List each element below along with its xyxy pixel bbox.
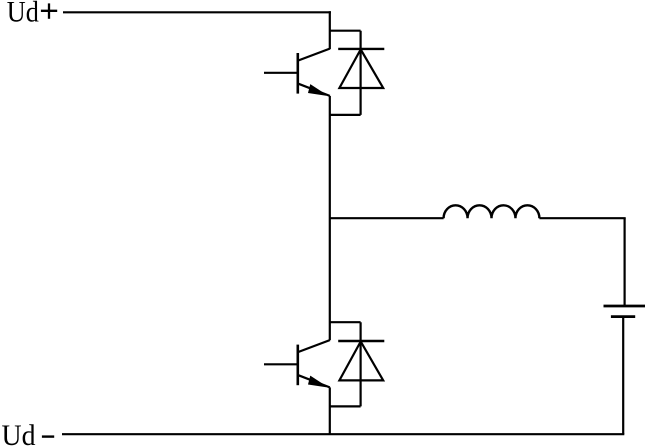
wire top rail from Ud+ to Q1 collector <box>63 11 331 13</box>
wire main vertical middle (Q1 emitter to Q2 collector) <box>329 96 331 340</box>
Q1 emitter lead <box>299 84 330 96</box>
Q2 collector lead <box>299 340 330 352</box>
diode D1 (freewheeling diode across Q1) <box>330 31 385 115</box>
D2 cathode bar <box>338 340 384 342</box>
wire main vertical bottom (Q2 emitter to bottom rail) <box>329 387 331 434</box>
battery positive plate <box>604 305 645 308</box>
wire phase output to inductor <box>330 217 444 219</box>
Q1 base lead <box>264 72 298 74</box>
battery negative plate <box>611 315 635 318</box>
Q2 base bar <box>296 345 299 386</box>
D1 cathode bar <box>338 48 384 50</box>
transistor Q2 (bottom IGBT) <box>264 340 330 387</box>
wire bottom rail from Ud- to battery <box>62 433 624 435</box>
node Ud- (negative DC rail label) <box>2 419 55 446</box>
wire D1 bottom branch <box>330 114 361 116</box>
wire right vertical upper (down to battery) <box>623 218 625 306</box>
wire main vertical top (rail down to Q1) <box>329 11 331 49</box>
wire right vertical lower (battery to bottom rail) <box>622 317 624 435</box>
Q1 base bar <box>296 53 299 94</box>
wire D1 top branch <box>330 30 361 32</box>
Q1 emitter arrowhead <box>309 85 327 95</box>
inductor L1 <box>444 205 540 218</box>
wire D2 bottom branch <box>330 405 361 407</box>
Q2 base lead <box>264 363 298 365</box>
D2 anode triangle <box>339 342 383 381</box>
wire D2 top branch <box>330 321 361 323</box>
wire D1 through vertical <box>360 31 362 115</box>
diode D2 (freewheeling diode across Q2) <box>330 322 385 406</box>
svg-text:Ud: Ud <box>2 419 36 446</box>
transistor Q1 (top IGBT) <box>264 49 330 96</box>
wire inductor to right branch <box>539 217 625 219</box>
D1 anode triangle <box>339 49 383 88</box>
Q2 emitter lead <box>299 375 330 387</box>
node Ud+ (positive DC rail label) <box>7 0 57 28</box>
Q2 emitter arrowhead <box>309 376 327 386</box>
Q1 collector lead <box>299 49 330 61</box>
svg-text:Ud: Ud <box>7 0 39 28</box>
wire D2 through vertical <box>360 322 362 406</box>
